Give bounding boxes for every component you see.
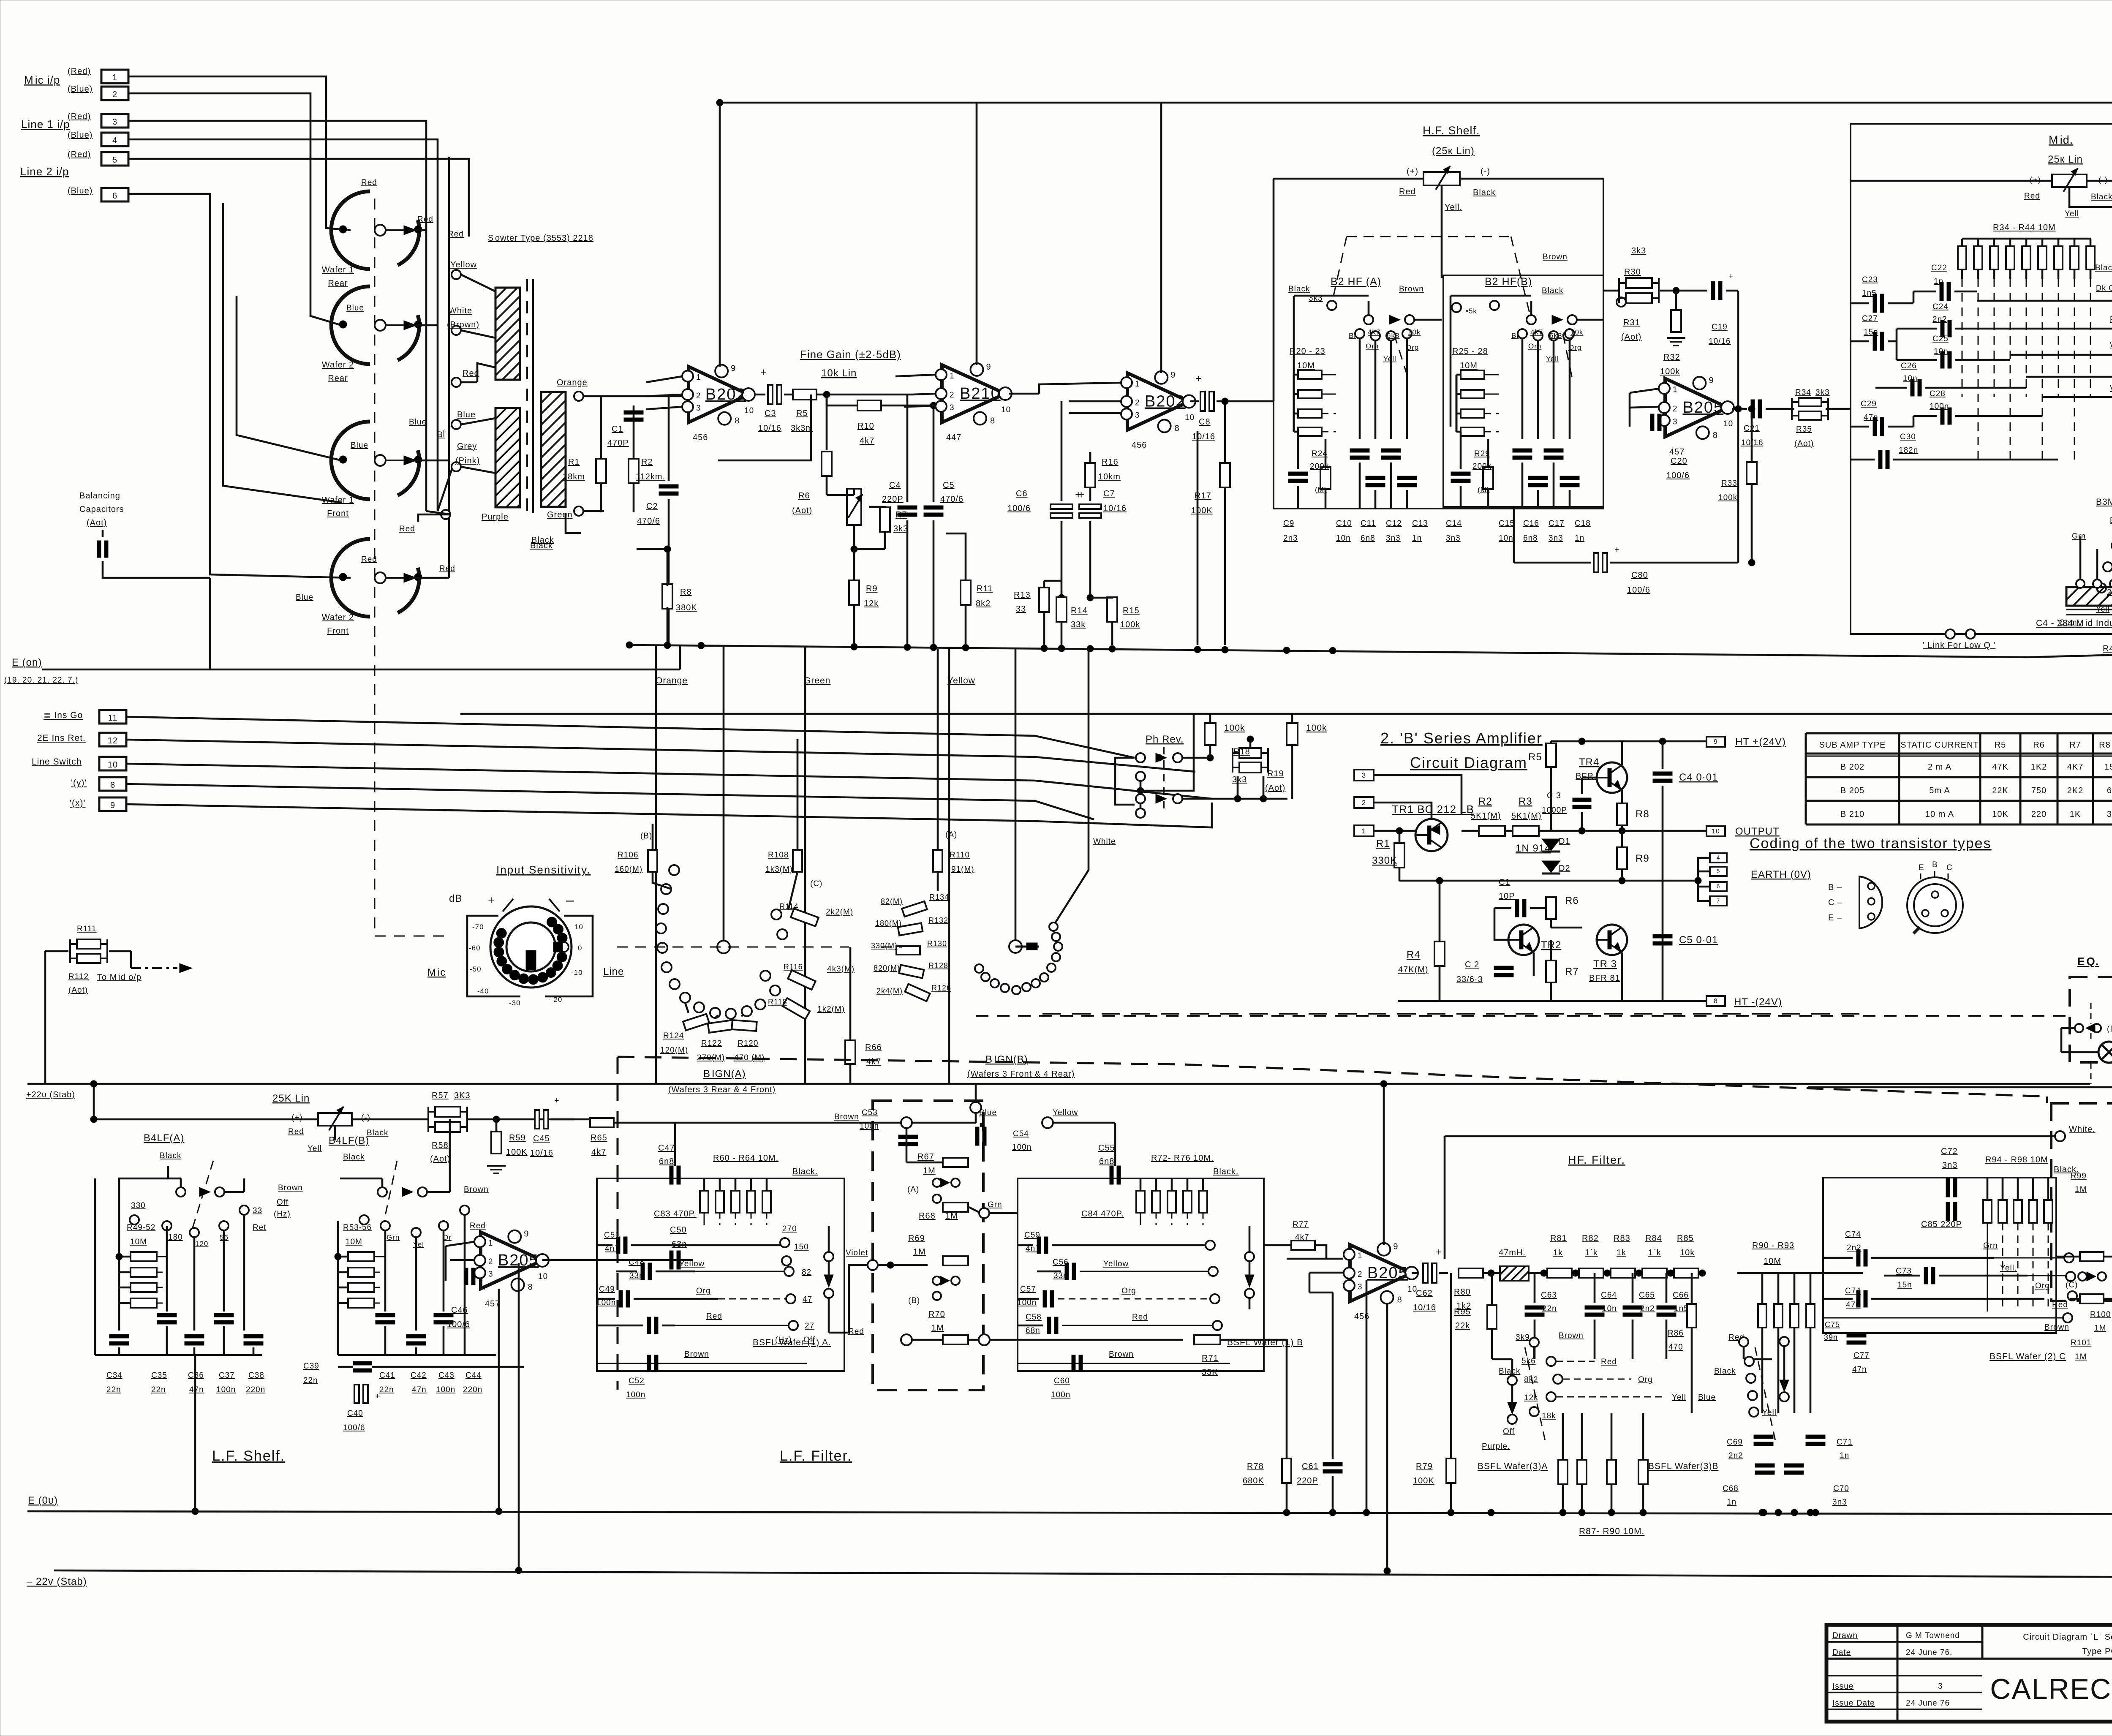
svg-text:Brown: Brown <box>1543 253 1568 261</box>
svg-text:-70: -70 <box>472 923 484 931</box>
svg-text:6n8: 6n8 <box>1361 534 1375 543</box>
svg-text:R5: R5 <box>1528 751 1542 763</box>
svg-text:Grey: Grey <box>457 442 477 451</box>
svg-text:Line Switch: Line Switch <box>32 757 82 767</box>
svg-text:68n: 68n <box>1026 1326 1040 1335</box>
svg-text:(Red): (Red) <box>68 67 91 76</box>
svg-text:3n3: 3n3 <box>1942 1161 1957 1170</box>
svg-text:82(M): 82(M) <box>881 897 903 906</box>
svg-text:Red: Red <box>1601 1358 1617 1366</box>
svg-text:2n2: 2n2 <box>1640 1304 1655 1313</box>
svg-text:10n: 10n <box>1336 534 1351 543</box>
svg-text:10: 10 <box>744 406 754 415</box>
svg-text:B210: B210 <box>960 385 1001 403</box>
svg-text:B2 HF(B): B2 HF(B) <box>1485 276 1532 288</box>
svg-text:3k3: 3k3 <box>1232 775 1247 784</box>
svg-text:White: White <box>1093 837 1116 846</box>
svg-text:R57: R57 <box>432 1091 449 1100</box>
svg-text:100k: 100k <box>1660 367 1680 376</box>
svg-text:C77: C77 <box>1853 1351 1870 1360</box>
svg-text:9: 9 <box>524 1230 529 1239</box>
svg-text:C45: C45 <box>533 1134 550 1143</box>
svg-text:C42: C42 <box>411 1371 427 1380</box>
svg-text:Yell: Yell <box>308 1144 322 1153</box>
svg-text:R18: R18 <box>1233 747 1250 756</box>
svg-text:M ic: M ic <box>427 967 446 978</box>
svg-text:(Blue): (Blue) <box>68 186 93 196</box>
svg-text:100k: 100k <box>1306 723 1327 733</box>
svg-text:(B): (B) <box>640 832 652 841</box>
svg-text:Circuit Diagram ˈLˈ Series I/: Circuit Diagram ˈLˈ Series I/P - EQ Modu… <box>2023 1633 2112 1642</box>
svg-text:R130: R130 <box>927 939 947 948</box>
svg-text:Bĺ: Bĺ <box>1349 332 1356 340</box>
svg-text:Off: Off <box>277 1198 288 1207</box>
svg-text:33k: 33k <box>1071 620 1086 629</box>
svg-text:Orn: Orn <box>1366 342 1379 350</box>
svg-text:6k8: 6k8 <box>1549 332 1562 340</box>
svg-text:3k3m: 3k3m <box>791 424 813 433</box>
svg-text:4k7: 4k7 <box>866 1057 881 1067</box>
svg-text:1: 1 <box>1673 385 1678 394</box>
svg-text:R106: R106 <box>618 851 638 860</box>
svg-text:Black: Black <box>2095 264 2112 272</box>
svg-text:Front: Front <box>327 626 349 636</box>
svg-text:470P: 470P <box>607 438 629 448</box>
svg-text:4K7: 4K7 <box>2067 762 2084 772</box>
svg-text:R3: R3 <box>1519 796 1532 807</box>
svg-text:100K: 100K <box>506 1148 528 1157</box>
svg-text:9: 9 <box>1714 738 1718 746</box>
svg-text:E (on): E (on) <box>12 657 42 668</box>
svg-text:R6: R6 <box>1565 895 1579 906</box>
svg-text:C10: C10 <box>1336 519 1352 528</box>
svg-text:Circuit Diagram: Circuit Diagram <box>1410 754 1527 771</box>
svg-text:C54: C54 <box>1013 1129 1029 1138</box>
svg-text:BSFL Wafer (1) B: BSFL Wafer (1) B <box>1227 1338 1303 1347</box>
svg-text:– 22v (Stab): – 22v (Stab) <box>27 1576 87 1587</box>
svg-text:100k: 100k <box>1718 493 1737 502</box>
svg-text:C43: C43 <box>438 1371 455 1380</box>
svg-text:R128: R128 <box>928 961 948 970</box>
svg-text:1: 1 <box>488 1239 493 1248</box>
svg-text:1k: 1k <box>1553 1248 1563 1257</box>
svg-text:C6: C6 <box>1016 489 1028 498</box>
svg-text:1K2: 1K2 <box>2031 762 2047 772</box>
svg-text:3: 3 <box>488 1270 493 1279</box>
svg-text:Balancing: Balancing <box>79 491 120 501</box>
svg-text:HT -(24V): HT -(24V) <box>1734 996 1782 1008</box>
svg-text:220n: 220n <box>463 1385 482 1394</box>
svg-text:(Aot): (Aot) <box>430 1154 450 1164</box>
svg-text:C5: C5 <box>943 481 955 490</box>
svg-text:Input Sensitivity.: Input Sensitivity. <box>496 863 591 876</box>
svg-text:Green: Green <box>804 676 830 686</box>
svg-text:Org: Org <box>1406 343 1419 351</box>
svg-text:Grn: Grn <box>1983 1241 1998 1250</box>
svg-text:82: 82 <box>802 1268 811 1277</box>
svg-text:C23: C23 <box>1862 275 1878 284</box>
svg-text:24 June 76: 24 June 76 <box>1906 1699 1950 1708</box>
svg-text:+: + <box>554 1096 560 1105</box>
svg-text:B 205: B 205 <box>1840 786 1864 795</box>
svg-text:27: 27 <box>805 1322 814 1331</box>
svg-text:100K: 100K <box>1413 1476 1434 1486</box>
svg-text:22n: 22n <box>151 1385 166 1394</box>
svg-text:Black: Black <box>1714 1367 1736 1376</box>
svg-text:47n: 47n <box>1852 1365 1867 1374</box>
svg-text:Brown: Brown <box>278 1184 303 1192</box>
svg-text:C19: C19 <box>1712 323 1728 332</box>
svg-text:22n: 22n <box>303 1376 318 1385</box>
svg-text:(Hz): (Hz) <box>274 1210 291 1219</box>
svg-text:10k: 10k <box>1680 1248 1695 1257</box>
svg-text:10k: 10k <box>1570 328 1583 336</box>
svg-text:B202: B202 <box>1145 393 1186 411</box>
svg-text:9: 9 <box>110 801 115 810</box>
svg-text:Brown: Brown <box>1559 1331 1584 1340</box>
svg-text:R10: R10 <box>857 422 874 431</box>
svg-text:270: 270 <box>782 1224 797 1233</box>
svg-text:C29: C29 <box>1861 400 1877 408</box>
svg-text:(Blue): (Blue) <box>68 84 93 94</box>
svg-text:3: 3 <box>1938 1682 1943 1691</box>
svg-text:R34 - R44 10M: R34 - R44 10M <box>1993 223 2056 232</box>
svg-text:B202: B202 <box>705 386 746 403</box>
svg-text:33K: 33K <box>1202 1368 1218 1377</box>
svg-text:Wafer 2: Wafer 2 <box>322 613 354 622</box>
svg-text:Org: Org <box>1568 343 1581 351</box>
svg-text:3k3: 3k3 <box>893 524 908 533</box>
svg-text:-30: -30 <box>509 999 521 1007</box>
svg-text:Rear: Rear <box>328 279 348 288</box>
svg-text:C46: C46 <box>451 1306 468 1315</box>
svg-text:8: 8 <box>735 416 740 426</box>
svg-text:BSFL Wafer (2) C: BSFL Wafer (2) C <box>1990 1352 2066 1361</box>
svg-text:Red: Red <box>2052 1301 2068 1309</box>
svg-text:B205: B205 <box>1682 399 1723 416</box>
svg-text:BSFL Wafer(3)B: BSFL Wafer(3)B <box>1648 1461 1718 1471</box>
svg-text:1: 1 <box>696 373 701 382</box>
svg-text:Red: Red <box>439 564 455 573</box>
svg-text:Red: Red <box>417 215 433 224</box>
svg-text:Blue: Blue <box>346 304 364 313</box>
svg-text:1: 1 <box>950 372 955 381</box>
svg-text:R8: R8 <box>680 588 692 597</box>
svg-text:1n: 1n <box>1840 1451 1849 1460</box>
svg-text:820(M): 820(M) <box>874 964 900 972</box>
svg-text:C47: C47 <box>658 1143 675 1153</box>
svg-text:Yell: Yell <box>1672 1393 1686 1402</box>
svg-text:3: 3 <box>1673 417 1678 426</box>
svg-text:10M: 10M <box>346 1238 362 1246</box>
svg-text:100k: 100k <box>1224 723 1245 733</box>
svg-text:C62: C62 <box>1416 1289 1433 1298</box>
svg-text:Yellow: Yellow <box>1103 1260 1129 1268</box>
svg-text:(+): (+) <box>1407 167 1418 176</box>
svg-text:CALREC AUDIO LIMITED: CALREC AUDIO LIMITED <box>1990 1673 2112 1705</box>
svg-text:(Red): (Red) <box>68 150 91 159</box>
svg-text:4k7: 4k7 <box>591 1148 606 1157</box>
svg-text:C3: C3 <box>765 409 776 418</box>
svg-text:R101: R101 <box>2071 1339 2091 1347</box>
svg-text:10: 10 <box>574 923 583 931</box>
svg-text:2. 'B' Series Amplifier: 2. 'B' Series Amplifier <box>1380 729 1543 747</box>
svg-text:Red: Red <box>448 230 464 239</box>
svg-text:–: – <box>566 892 574 908</box>
svg-text:B4LF(A): B4LF(A) <box>144 1132 184 1144</box>
svg-text:R68: R68 <box>919 1211 936 1221</box>
svg-text:8: 8 <box>1714 998 1718 1005</box>
svg-text:4k7: 4k7 <box>1295 1233 1309 1242</box>
svg-text:6n8: 6n8 <box>1523 534 1538 543</box>
svg-text:Yell: Yell <box>1762 1408 1777 1417</box>
svg-text:Drawn: Drawn <box>1832 1631 1858 1640</box>
svg-text:330(M): 330(M) <box>871 941 898 950</box>
svg-text:Yel: Yel <box>413 1241 424 1249</box>
svg-text:12k: 12k <box>1524 1393 1538 1402</box>
svg-text:1k3(M): 1k3(M) <box>765 865 793 874</box>
svg-text:(Aot): (Aot) <box>792 506 812 515</box>
svg-text:C55: C55 <box>1098 1143 1115 1153</box>
svg-text:2n2: 2n2 <box>1932 315 1947 324</box>
svg-text:+: + <box>488 894 495 906</box>
svg-text:47K(M): 47K(M) <box>1398 965 1429 974</box>
svg-text:4: 4 <box>112 136 117 145</box>
svg-text:R33: R33 <box>1721 479 1737 488</box>
svg-text:10k Lin: 10k Lin <box>821 367 857 379</box>
svg-text:Grn: Grn <box>2072 532 2086 540</box>
svg-text:C20: C20 <box>1671 457 1687 466</box>
svg-text:47n: 47n <box>189 1385 204 1394</box>
svg-text:C39: C39 <box>303 1362 319 1371</box>
svg-text:BSFL Wafer(3)A: BSFL Wafer(3)A <box>1478 1461 1548 1471</box>
svg-text:R30: R30 <box>1624 267 1641 277</box>
svg-text:5: 5 <box>112 155 117 165</box>
svg-text:Blue: Blue <box>351 441 368 450</box>
svg-text:C80: C80 <box>1631 571 1648 580</box>
svg-text:1M: 1M <box>2075 1185 2087 1194</box>
svg-text:Yell.: Yell. <box>1445 203 1462 212</box>
svg-text:4k7: 4k7 <box>1368 328 1380 336</box>
svg-text:C53: C53 <box>862 1108 878 1117</box>
svg-text:Capacitors: Capacitors <box>79 505 124 514</box>
svg-text:(Blue): (Blue) <box>68 131 93 140</box>
svg-text:Black: Black <box>530 541 553 550</box>
svg-text:C69: C69 <box>1727 1438 1743 1447</box>
svg-text:+: + <box>1728 272 1734 281</box>
svg-text:47: 47 <box>803 1295 812 1304</box>
svg-text:R31: R31 <box>1623 318 1640 327</box>
svg-text:-40: -40 <box>477 987 489 995</box>
svg-text:Ret: Ret <box>253 1223 267 1232</box>
svg-text:C7: C7 <box>1103 489 1115 498</box>
svg-text:C36: C36 <box>188 1371 204 1380</box>
svg-text:100/6: 100/6 <box>1666 471 1690 480</box>
svg-text:120(M): 120(M) <box>660 1046 688 1055</box>
svg-text:C4: C4 <box>889 481 901 490</box>
svg-text:160(M): 160(M) <box>615 865 642 874</box>
svg-text:22n: 22n <box>379 1385 394 1394</box>
svg-text:R5: R5 <box>796 409 808 418</box>
svg-text:0: 0 <box>578 944 582 952</box>
svg-text:10: 10 <box>1723 419 1733 428</box>
svg-text:2k2(M): 2k2(M) <box>826 908 853 917</box>
svg-text:C13: C13 <box>1412 519 1428 528</box>
svg-text:C84 470P.: C84 470P. <box>1081 1209 1124 1219</box>
svg-text:182n: 182n <box>1899 446 1918 455</box>
svg-text:(Pink): (Pink) <box>455 456 480 465</box>
svg-text:(D): (D) <box>2107 1025 2112 1034</box>
svg-text:R108: R108 <box>768 851 789 860</box>
svg-text:470: 470 <box>1668 1343 1683 1352</box>
svg-text:Line 1 i/p: Line 1 i/p <box>21 118 70 131</box>
svg-text:C14: C14 <box>1446 519 1462 528</box>
svg-text:R6: R6 <box>798 491 810 501</box>
svg-text:220P: 220P <box>1297 1476 1318 1486</box>
svg-text:C12: C12 <box>1386 519 1402 528</box>
svg-text:9: 9 <box>986 362 991 372</box>
svg-text:+: + <box>1078 488 1085 501</box>
svg-text:10M: 10M <box>1764 1257 1781 1266</box>
svg-text:Blue: Blue <box>1698 1393 1716 1402</box>
svg-text:1M: 1M <box>2094 1324 2106 1333</box>
svg-text:Org: Org <box>1121 1287 1136 1295</box>
svg-text:C58: C58 <box>1026 1313 1042 1322</box>
svg-text:8: 8 <box>528 1283 533 1292</box>
svg-text:39n: 39n <box>1824 1333 1838 1341</box>
svg-text:Red: Red <box>288 1127 304 1136</box>
svg-text:3n3: 3n3 <box>1446 534 1461 543</box>
svg-text:•5k: •5k <box>1466 307 1477 315</box>
svg-text:10n: 10n <box>1903 374 1918 383</box>
svg-text:120: 120 <box>195 1240 208 1248</box>
svg-text:R6: R6 <box>2033 740 2045 750</box>
svg-text:R15: R15 <box>1123 606 1140 615</box>
svg-text:(Aot): (Aot) <box>68 986 88 995</box>
svg-text:330K: 330K <box>1372 855 1397 866</box>
svg-text:150: 150 <box>794 1243 809 1252</box>
svg-text:Type PQ1061.: Type PQ1061. <box>2082 1647 2112 1656</box>
svg-text:R34: R34 <box>1795 388 1811 397</box>
svg-text:Black: Black <box>367 1129 388 1137</box>
svg-text:C4 - 284 M id Inductor.: C4 - 284 M id Inductor. <box>2036 618 2112 628</box>
svg-text:5m A: 5m A <box>1929 786 1950 795</box>
svg-text:220: 220 <box>2031 810 2047 819</box>
svg-text:C8: C8 <box>1199 417 1211 427</box>
svg-text:100/6: 100/6 <box>447 1320 470 1329</box>
svg-text:- 20: - 20 <box>548 996 562 1004</box>
svg-text:Blk: Blk <box>2110 516 2112 525</box>
svg-text:Yellow: Yellow <box>450 260 477 269</box>
svg-text:10/16: 10/16 <box>1709 337 1731 346</box>
svg-text:S owter Type (3553) 2218: S owter Type (3553) 2218 <box>488 234 593 243</box>
svg-text:10: 10 <box>1185 414 1195 422</box>
svg-text:Ph Rev.: Ph Rev. <box>1146 734 1184 745</box>
svg-text:R14: R14 <box>1071 606 1088 615</box>
svg-text:3: 3 <box>1358 1282 1363 1291</box>
svg-text:C11: C11 <box>1361 519 1376 528</box>
svg-text:25к Lin: 25к Lin <box>2048 154 2083 165</box>
svg-text:R69: R69 <box>908 1234 925 1243</box>
svg-text:1K: 1K <box>2070 810 2081 819</box>
svg-text:3: 3 <box>950 403 955 412</box>
svg-text:10n: 10n <box>1602 1304 1617 1313</box>
svg-text:6: 6 <box>1717 883 1720 890</box>
svg-text:R100: R100 <box>2090 1310 2111 1319</box>
svg-text:2k4(M): 2k4(M) <box>876 987 903 995</box>
svg-text:1M: 1M <box>931 1323 944 1333</box>
svg-text:(B): (B) <box>908 1296 920 1305</box>
svg-text:Orn: Orn <box>1528 342 1541 350</box>
svg-text:C73: C73 <box>1896 1267 1912 1276</box>
svg-text:R110: R110 <box>950 851 970 860</box>
svg-text:(A): (A) <box>907 1185 919 1194</box>
svg-text:22K: 22K <box>1992 786 2009 795</box>
svg-text:10K: 10K <box>1992 810 2009 819</box>
svg-text:E Q.: E Q. <box>2077 955 2099 968</box>
svg-text:100n: 100n <box>216 1385 236 1394</box>
svg-text:2 m A: 2 m A <box>1928 762 1951 772</box>
svg-text:10km: 10km <box>1098 472 1121 482</box>
svg-text:R16: R16 <box>1102 457 1119 467</box>
svg-text:C9: C9 <box>1283 519 1294 528</box>
svg-text:-10: -10 <box>571 969 583 977</box>
svg-text:R112: R112 <box>68 972 89 981</box>
svg-text:10: 10 <box>108 760 118 770</box>
svg-text:33: 33 <box>253 1206 262 1215</box>
svg-text:Org: Org <box>696 1287 711 1295</box>
svg-text:4k7: 4k7 <box>1530 328 1543 336</box>
svg-text:+22υ (Stab): +22υ (Stab) <box>26 1090 75 1099</box>
svg-text:1M: 1M <box>923 1166 936 1175</box>
svg-text:Black: Black <box>1499 1367 1520 1376</box>
svg-text:2n3: 2n3 <box>1283 534 1298 543</box>
svg-text:2K2: 2K2 <box>2067 786 2084 795</box>
svg-text:Bĺ: Bĺ <box>437 430 445 439</box>
svg-text:B205: B205 <box>1367 1264 1408 1282</box>
svg-text:10M: 10M <box>1297 361 1315 370</box>
svg-text:5: 5 <box>1717 868 1720 874</box>
svg-text:R25 - 28: R25 - 28 <box>1452 347 1488 356</box>
svg-text:2: 2 <box>950 391 955 400</box>
svg-text:R1: R1 <box>1376 838 1390 849</box>
svg-text:C17: C17 <box>1549 519 1565 528</box>
svg-text:Violet: Violet <box>846 1249 868 1257</box>
svg-text:380K: 380K <box>676 603 697 612</box>
svg-text:1ˊk: 1ˊk <box>1648 1248 1661 1257</box>
svg-text:Bĺ: Bĺ <box>1511 332 1519 340</box>
svg-text:R53-56: R53-56 <box>343 1223 372 1232</box>
svg-text:R7: R7 <box>1565 966 1579 977</box>
svg-text:C50: C50 <box>670 1225 687 1235</box>
svg-text:C75: C75 <box>1825 1320 1840 1329</box>
svg-text:1n: 1n <box>1727 1498 1736 1507</box>
svg-text:150: 150 <box>2104 762 2112 772</box>
svg-text:91(M): 91(M) <box>951 865 974 874</box>
svg-text:10: 10 <box>1712 828 1720 835</box>
svg-text:C83 470P.: C83 470P. <box>654 1209 697 1219</box>
svg-text:10 m A: 10 m A <box>1925 810 1954 819</box>
svg-text:1n: 1n <box>1575 534 1584 543</box>
svg-text:8: 8 <box>110 781 115 790</box>
svg-text:Yell: Yell <box>1546 355 1559 363</box>
svg-text:C2: C2 <box>646 502 658 511</box>
svg-text:C49: C49 <box>599 1285 615 1294</box>
svg-text:Yell: Yell <box>1383 355 1396 363</box>
svg-text:C71: C71 <box>1837 1438 1853 1447</box>
svg-text:R2: R2 <box>641 457 653 467</box>
svg-text:6: 6 <box>112 191 117 201</box>
